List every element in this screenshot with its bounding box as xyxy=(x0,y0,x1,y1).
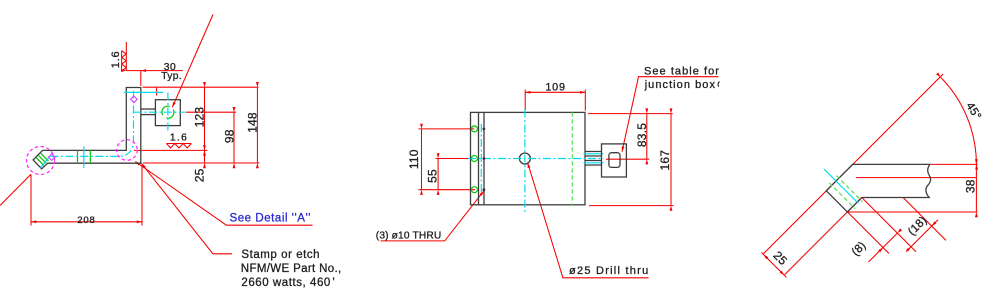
svg-text:1.6: 1.6 xyxy=(110,51,122,69)
svg-text:2660 watts, 460': 2660 watts, 460' xyxy=(241,277,335,289)
svg-text:38: 38 xyxy=(964,179,978,193)
svg-text:See Detail ''A'': See Detail ''A'' xyxy=(230,212,312,224)
svg-text:98: 98 xyxy=(223,129,237,143)
svg-text:83.5: 83.5 xyxy=(635,123,649,147)
svg-text:55: 55 xyxy=(425,169,439,183)
svg-text:(3) ø10 THRU: (3) ø10 THRU xyxy=(376,230,442,241)
svg-text:NFM/WE Part No.,: NFM/WE Part No., xyxy=(241,263,342,275)
svg-text:109: 109 xyxy=(545,81,565,93)
svg-text:123: 123 xyxy=(193,107,207,128)
svg-text:208: 208 xyxy=(77,215,95,226)
svg-text:junction box: junction box xyxy=(644,79,716,91)
svg-text:ø25 Drill thru: ø25 Drill thru xyxy=(569,265,649,277)
svg-text:110: 110 xyxy=(407,149,421,169)
svg-text:25: 25 xyxy=(193,168,207,182)
svg-text:Stamp or etch: Stamp or etch xyxy=(241,249,320,261)
svg-text:1.6: 1.6 xyxy=(170,133,188,144)
svg-text:148: 148 xyxy=(246,112,260,133)
svg-text:167: 167 xyxy=(658,150,672,171)
svg-text:Typ.: Typ. xyxy=(161,71,182,82)
svg-text:See table for: See table for xyxy=(644,65,720,77)
